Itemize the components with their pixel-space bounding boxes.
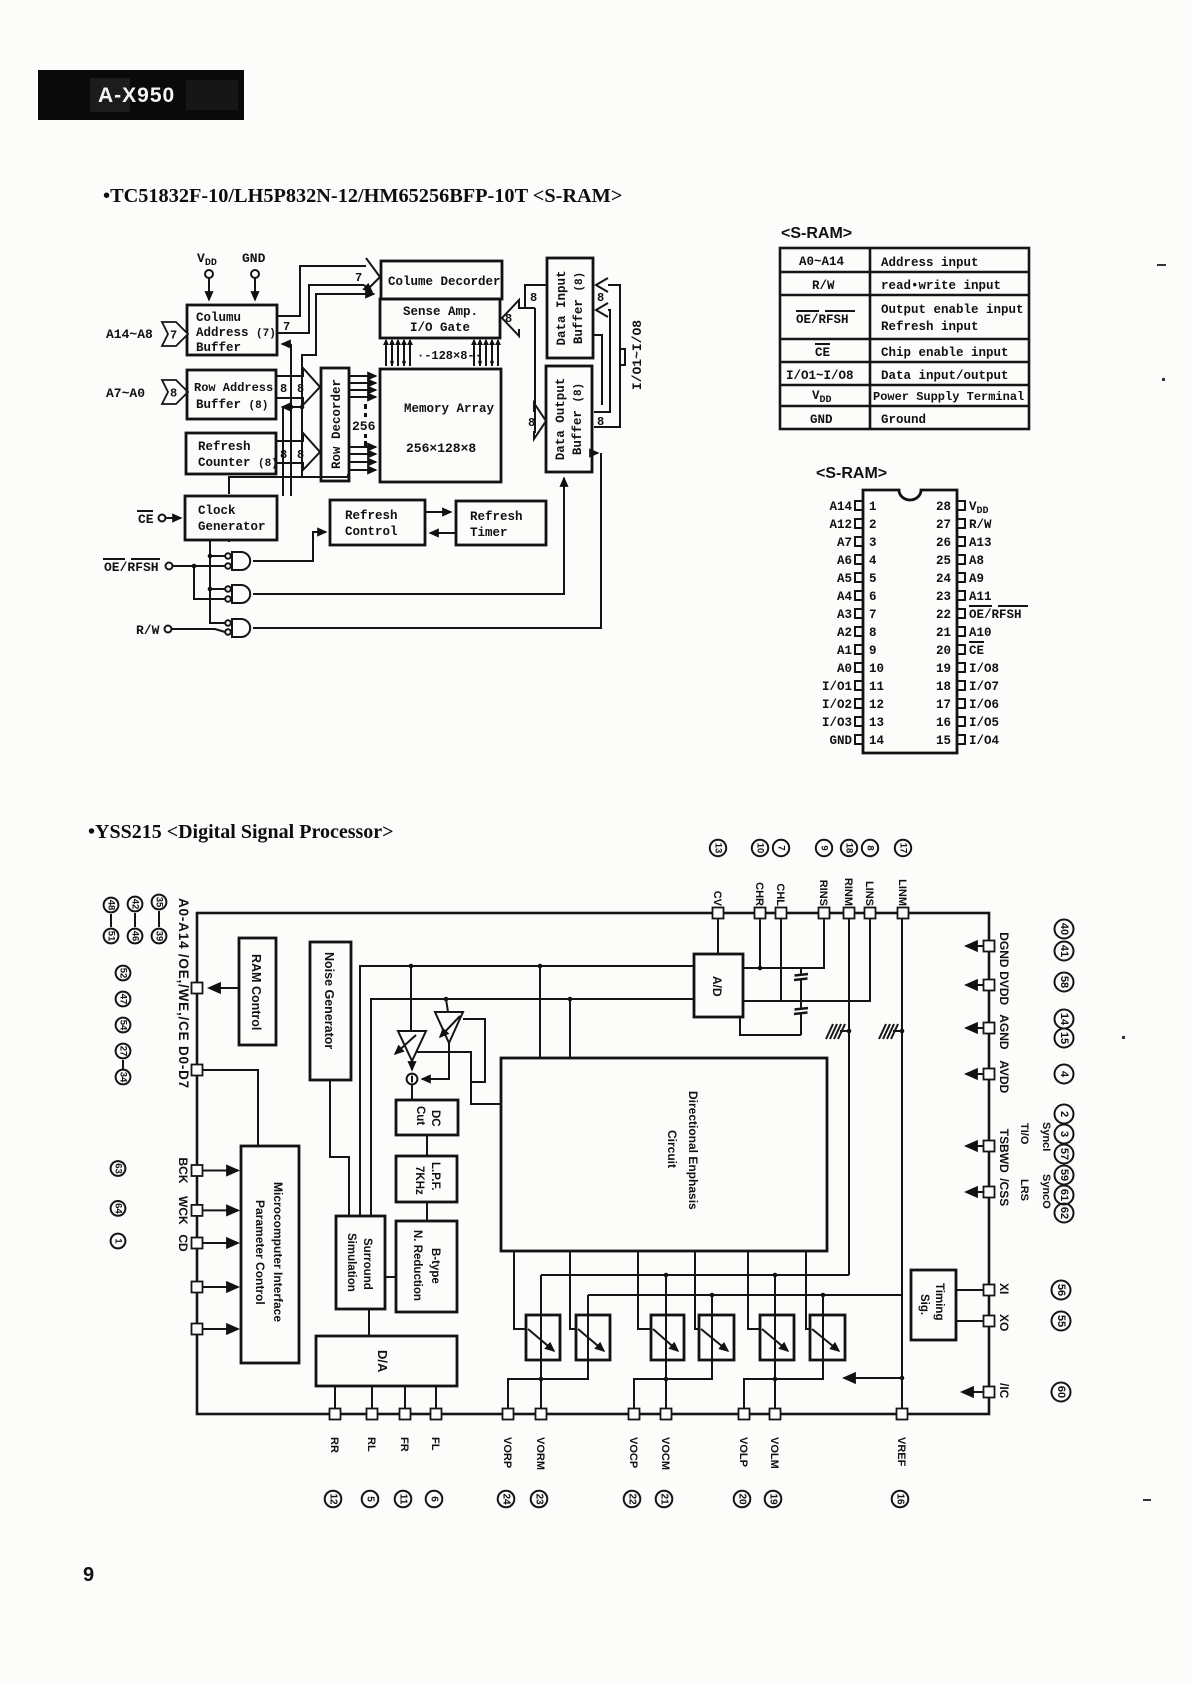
svg-text:8: 8 [297, 382, 304, 396]
svg-text:Simulation: Simulation [345, 1233, 357, 1292]
svg-text:A8: A8 [969, 554, 984, 568]
LINM line down to L bus and VREF [901, 918, 903, 1408]
svg-text:Refresh: Refresh [470, 510, 523, 524]
pin 23 A11 [936, 590, 992, 604]
svg-text:TI/O: TI/O [1018, 1123, 1030, 1145]
svg-text:<S-RAM>: <S-RAM> [816, 465, 887, 482]
wire gate3 to IO bus [253, 453, 601, 628]
pin /CSS [966, 1178, 1011, 1206]
svg-text:8: 8 [280, 448, 287, 462]
refresh counter [186, 433, 278, 474]
table row A0-A14 [799, 255, 979, 270]
wire A/D bottom loop to C2 [740, 1017, 801, 1035]
svg-text:15: 15 [1058, 1032, 1070, 1044]
pin OE WE CE square [192, 983, 203, 994]
pin 10 A0 [837, 662, 884, 676]
pin 2 A12 [829, 518, 876, 532]
svg-text:6: 6 [429, 1496, 440, 1502]
pin RINS [816, 840, 832, 919]
wire amp2 to summing node [422, 1043, 449, 1079]
svg-text:read•write input: read•write input [881, 279, 1001, 293]
svg-text:3: 3 [1058, 1131, 1070, 1137]
svg-text:SyncI: SyncI [1040, 1122, 1052, 1151]
DC cut block [396, 1100, 458, 1135]
VDD terminal [197, 251, 217, 300]
svg-text:Data Input: Data Input [555, 270, 569, 345]
svg-text:8: 8 [597, 291, 604, 305]
svg-text:CE: CE [969, 644, 984, 658]
analog ground 1 [826, 1024, 849, 1039]
svg-text:FR: FR [398, 1437, 410, 1452]
svg-text:1: 1 [869, 500, 877, 514]
pin VOCP [624, 1409, 641, 1508]
svg-text:46: 46 [130, 931, 141, 942]
svg-text:D/A: D/A [375, 1350, 390, 1373]
svg-text:7: 7 [776, 845, 787, 850]
table row R/W [812, 279, 1001, 293]
unlabeled control pins [192, 1282, 203, 1335]
svg-text:Chip enable input: Chip enable input [881, 346, 1009, 360]
pin 21 A10 [936, 626, 992, 640]
wire surround sim to D/A [368, 1309, 370, 1336]
svg-text:6: 6 [869, 590, 877, 604]
svg-text:L.P.F.: L.P.F. [429, 1162, 441, 1191]
capacitor C1 [794, 968, 808, 1001]
svg-text:Output enable input: Output enable input [881, 303, 1024, 317]
pin VOLP [734, 1409, 751, 1508]
stray scan marks right margin [1122, 264, 1166, 1501]
svg-text:16: 16 [895, 1493, 906, 1505]
svg-text:LRS: LRS [1018, 1179, 1030, 1201]
OE/RFSH input [103, 559, 225, 599]
table row IO1-IO8 [786, 369, 1009, 383]
wire control line to sense amp left [302, 294, 374, 477]
bus refresh counter to row decoder 8 8 [276, 433, 320, 470]
pin 16 I/O5 [936, 716, 999, 730]
svg-text:28: 28 [936, 500, 951, 514]
svg-text:4: 4 [1058, 1071, 1070, 1078]
pin WCK [111, 1196, 203, 1225]
pin 25 A8 [936, 554, 984, 568]
svg-text:Timing: Timing [933, 1283, 945, 1320]
volume attenuator 3 [651, 1315, 684, 1360]
svg-text:CE: CE [138, 512, 154, 527]
pin D0-D7 square [192, 1065, 203, 1076]
svg-text:8: 8 [280, 382, 287, 396]
pin CHL [773, 840, 789, 919]
svg-text:OE/RFSH: OE/RFSH [796, 313, 849, 327]
pin CV [710, 840, 726, 919]
svg-text:8: 8 [297, 448, 304, 462]
svg-text:20: 20 [737, 1493, 748, 1505]
svg-text:27: 27 [936, 518, 951, 532]
svg-text:AVDD: AVDD [997, 1060, 1011, 1093]
svg-text:9: 9 [819, 845, 830, 850]
svg-text:DVDD: DVDD [997, 971, 1011, 1005]
wire column buffer second line to decoder corner [277, 285, 372, 333]
svg-text:54: 54 [118, 1020, 129, 1031]
AND gate 3 [225, 619, 250, 637]
surround simulation block [336, 1216, 385, 1309]
pin 4 A6 [837, 554, 877, 568]
pin 26 A13 [936, 536, 992, 550]
pin 3 A7 [837, 536, 877, 550]
wire emphasis out to attenuator 1 [514, 1251, 527, 1329]
svg-text:9: 9 [83, 1564, 94, 1586]
pin 7 A3 [837, 608, 877, 622]
svg-text:39: 39 [154, 931, 165, 942]
svg-text:Row Address: Row Address [194, 381, 273, 395]
wire emphasis out to attenuator 4 [695, 1251, 700, 1329]
svg-text:VREF: VREF [895, 1437, 907, 1467]
clock generator [185, 496, 277, 540]
node 256 label with dotted line [352, 404, 376, 446]
pin CHR [752, 840, 768, 919]
wire sense amp right bus [502, 285, 547, 411]
svg-text:<S-RAM>: <S-RAM> [781, 225, 852, 242]
svg-text:48: 48 [106, 900, 117, 911]
svg-text:DGND: DGND [997, 932, 1011, 968]
svg-text:A7: A7 [837, 536, 852, 550]
summing node [407, 1061, 418, 1084]
svg-text:19: 19 [936, 662, 951, 676]
pin DGND [966, 932, 1011, 968]
svg-text:WCK: WCK [176, 1196, 190, 1225]
svg-text:I/O7: I/O7 [969, 680, 999, 694]
svg-text:62: 62 [1058, 1207, 1070, 1219]
pin 24 A9 [936, 572, 984, 586]
wire clock generator to gate inputs [208, 540, 225, 623]
svg-text:LINM: LINM [896, 879, 908, 906]
svg-text:I/O1~I/O8: I/O1~I/O8 [630, 320, 645, 390]
feedback wire to column address buffer [282, 344, 291, 496]
svg-text:LINS: LINS [863, 881, 875, 906]
svg-text:5: 5 [365, 1496, 376, 1502]
wire emphasis out to attenuator 3 [638, 1251, 652, 1329]
volume attenuator 1 [526, 1315, 560, 1360]
svg-text:BCK: BCK [176, 1158, 190, 1184]
data output buffer [546, 366, 592, 472]
svg-text:Buffer: Buffer [196, 341, 241, 355]
svg-text:64: 64 [113, 1203, 124, 1214]
svg-text:A6: A6 [837, 554, 852, 568]
arrows refresh control refresh timer [425, 512, 456, 533]
svg-text:26: 26 [936, 536, 951, 550]
svg-text:13: 13 [869, 716, 884, 730]
svg-text:A13: A13 [969, 536, 992, 550]
wire DC cut to LPF [426, 1135, 428, 1156]
directional emphasis circuit block [501, 1058, 827, 1251]
svg-text:Sense Amp.: Sense Amp. [403, 305, 478, 319]
volume attenuator 6 [810, 1315, 845, 1360]
svg-text:256: 256 [352, 419, 376, 434]
column address buffer [187, 305, 277, 355]
pin VORM [531, 1409, 548, 1508]
IO bus inner wire 2 [593, 335, 602, 405]
svg-text:Memory Array: Memory Array [404, 402, 495, 416]
data input buffer [547, 258, 593, 358]
svg-text:23: 23 [936, 590, 951, 604]
L channel bus to attenuators [588, 1294, 902, 1296]
wire A/D right to RINS with CHR tap [743, 918, 824, 968]
svg-text:GND: GND [829, 734, 852, 748]
input A14~A8 [106, 322, 188, 346]
svg-text:RINM: RINM [842, 878, 854, 906]
pin 6 A4 [837, 590, 877, 604]
svg-text:Sig.: Sig. [918, 1294, 930, 1315]
svg-text:Clock: Clock [198, 504, 236, 518]
svg-text:·-128×8-·: ·-128×8-· [417, 349, 482, 363]
variable amp 1 [395, 966, 426, 1061]
svg-text:Power Supply Terminal: Power Supply Terminal [873, 390, 1024, 404]
B-type N.Reduction block [396, 1221, 457, 1312]
svg-text:XI: XI [997, 1283, 1011, 1294]
svg-text:63: 63 [113, 1163, 124, 1174]
bus row address buffer to row decoder 8 8 [277, 368, 320, 405]
capacitor C2 [794, 1001, 808, 1035]
sense amp I/O gate [380, 299, 500, 338]
wire emphasis out to attenuator 6 [806, 1251, 811, 1329]
pin 14 GND [829, 734, 884, 748]
svg-text:VOCP: VOCP [627, 1437, 639, 1468]
wire CV to A/D [717, 918, 719, 954]
svg-text:A14: A14 [829, 500, 852, 514]
attenuator 4 output to VOCP node [634, 1295, 712, 1408]
svg-text:Buffer (8): Buffer (8) [571, 383, 585, 455]
pin VOLM [765, 1409, 782, 1508]
svg-text:11: 11 [398, 1494, 409, 1505]
svg-text:A3: A3 [837, 608, 852, 622]
svg-text:VOLP: VOLP [737, 1437, 749, 1467]
analog ground 2 [879, 1024, 902, 1039]
clock bundle vertical wires [228, 540, 230, 542]
svg-text:52: 52 [118, 968, 129, 979]
svg-text:I/O6: I/O6 [969, 698, 999, 712]
svg-text:18: 18 [936, 680, 951, 694]
pin VREF [892, 1409, 909, 1508]
svg-text:CHR: CHR [753, 882, 765, 906]
svg-text:A/D: A/D [710, 976, 724, 997]
wire emphasis out to attenuator 5 [748, 1251, 761, 1329]
volume attenuator 5 [760, 1315, 794, 1360]
svg-text:8: 8 [597, 415, 604, 429]
svg-text:4: 4 [869, 554, 877, 568]
pin RINM [841, 840, 857, 919]
pin /IC [962, 1383, 1071, 1402]
svg-text:8: 8 [865, 845, 876, 850]
svg-text:CD: CD [176, 1234, 190, 1252]
bus line 2 to A/D [371, 999, 694, 1216]
svg-text:13: 13 [713, 843, 724, 854]
svg-text:56: 56 [1055, 1284, 1067, 1296]
pin AVDD [966, 1060, 1011, 1093]
bus into data output buffer 8 [528, 403, 546, 439]
wire D0-D7 to microcomputer [203, 1070, 258, 1146]
pin 27 R/W [936, 518, 992, 532]
pin 11 I/O1 [822, 680, 884, 694]
svg-text:FL: FL [429, 1437, 441, 1451]
D/A output wires [335, 1386, 436, 1408]
svg-text:Buffer (8): Buffer (8) [196, 398, 268, 412]
AND gate 2 [225, 585, 250, 603]
wire noise generator to surround sim [330, 1080, 349, 1216]
svg-text:A14~A8: A14~A8 [106, 327, 153, 342]
svg-text:12: 12 [869, 698, 884, 712]
svg-text:I/O2: I/O2 [822, 698, 852, 712]
row decoder to memory array arrows top [349, 376, 376, 397]
wire gate1 to refresh control [253, 532, 326, 561]
svg-text:A7~A0: A7~A0 [106, 386, 145, 401]
svg-text:2: 2 [1058, 1111, 1070, 1117]
svg-text:AGND: AGND [997, 1014, 1011, 1050]
svg-text:7KHz: 7KHz [413, 1166, 425, 1195]
pin TSBWD [966, 1129, 1011, 1173]
A/D converter block [694, 954, 743, 1017]
pin function table [780, 248, 1029, 429]
attenuator 1 output to VORM [540, 1275, 542, 1408]
pin VORP [498, 1409, 515, 1508]
svg-text:OE/RFSH: OE/RFSH [104, 560, 159, 575]
VREF feedback arrow [844, 1377, 902, 1379]
svg-text:3: 3 [869, 536, 877, 550]
wire RAM control to OE pin [209, 987, 239, 989]
svg-text:Generator: Generator [198, 520, 266, 534]
svg-text:/CSS: /CSS [997, 1178, 1011, 1206]
pin 1 A14 [829, 500, 876, 514]
RAM control block [239, 938, 276, 1045]
svg-text:R/W: R/W [136, 623, 160, 638]
pin AGND [966, 1014, 1011, 1050]
svg-text:TSBWD: TSBWD [997, 1129, 1011, 1173]
wire surround sim to N.Reduction [385, 1276, 396, 1278]
svg-text:CHL: CHL [774, 883, 786, 906]
table row VDD [812, 389, 1024, 406]
svg-text:Refresh: Refresh [198, 440, 251, 454]
svg-text:47: 47 [118, 994, 129, 1005]
table row OE/RFSH [796, 303, 1024, 334]
bus line 1 to A/D [360, 966, 694, 1216]
pin 8 A2 [837, 626, 877, 640]
svg-text:A10: A10 [969, 626, 992, 640]
svg-text:27: 27 [118, 1046, 129, 1057]
right pin circles [1055, 920, 1074, 1223]
svg-text:A-X950: A-X950 [98, 84, 175, 107]
svg-text:22: 22 [627, 1493, 638, 1505]
IO bus outer wire [594, 278, 625, 429]
svg-text:Circuit: Circuit [665, 1130, 679, 1168]
pin LINS [862, 840, 878, 919]
input A7~A0 [106, 380, 188, 404]
pin RL [362, 1409, 379, 1508]
svg-text:A11: A11 [969, 590, 992, 604]
noise generator block [310, 942, 351, 1080]
wire LPF to N.Reduction [426, 1202, 428, 1221]
pin group A0-A14 circles 35-51 [104, 895, 167, 944]
svg-text:8: 8 [530, 291, 537, 305]
pin 5 A5 [837, 572, 877, 586]
row decoder to memory array arrows bottom [349, 447, 376, 470]
svg-text:Noise Generator: Noise Generator [322, 952, 336, 1049]
svg-text:21: 21 [936, 626, 951, 640]
pin VOCM [656, 1409, 673, 1508]
svg-text:VOCM: VOCM [659, 1437, 671, 1470]
svg-text:7: 7 [869, 608, 877, 622]
svg-text:VORM: VORM [534, 1437, 546, 1470]
svg-text:17: 17 [898, 843, 909, 854]
svg-text:SyncO: SyncO [1040, 1174, 1052, 1209]
wire column buffer to column decoder bus 7 [277, 258, 380, 334]
svg-text:42: 42 [130, 899, 141, 910]
svg-text:18: 18 [844, 843, 855, 854]
svg-text:A0-A14 /OE,/WE,/CE D0-D7: A0-A14 /OE,/WE,/CE D0-D7 [176, 898, 191, 1089]
R channel bus to attenuators [541, 1274, 849, 1276]
svg-text:Parameter Control: Parameter Control [253, 1200, 267, 1305]
svg-text:Refresh input: Refresh input [881, 320, 979, 334]
timing signal block [911, 1270, 956, 1340]
svg-text:16: 16 [936, 716, 951, 730]
variable amp 2 [435, 999, 463, 1043]
CE input [137, 511, 181, 527]
svg-text:19: 19 [768, 1493, 779, 1505]
attenuator 2 output to VORP node [508, 1295, 588, 1408]
memory array [380, 369, 501, 482]
attenuator 3 output to VOCM [665, 1275, 667, 1408]
svg-text:Row Decorder: Row Decorder [330, 379, 344, 469]
svg-text:A0~A14: A0~A14 [799, 255, 845, 269]
svg-text:59: 59 [1058, 1169, 1070, 1181]
GND terminal [242, 251, 266, 300]
pin XI [956, 1281, 1071, 1300]
svg-text:B-type: B-type [429, 1248, 441, 1284]
svg-text:22: 22 [936, 608, 951, 622]
svg-text:VOLM: VOLM [768, 1437, 780, 1469]
attenuator 6 output to VOLP node [744, 1295, 823, 1408]
svg-text:55: 55 [1055, 1315, 1067, 1327]
svg-text:10: 10 [755, 843, 766, 854]
svg-text:7: 7 [355, 271, 362, 285]
wires buses into emphasis circuit [539, 966, 541, 1058]
svg-text:9: 9 [869, 644, 877, 658]
svg-text:8: 8 [528, 416, 535, 430]
wire gate2 to data output buffer [253, 478, 564, 594]
svg-text:Data Output: Data Output [554, 378, 568, 461]
svg-text:Counter (8): Counter (8) [198, 456, 278, 470]
svg-text:Address input: Address input [881, 256, 979, 270]
svg-text:7: 7 [283, 320, 290, 334]
svg-text:Surround: Surround [361, 1238, 373, 1290]
pin 12 I/O2 [822, 698, 884, 712]
svg-text:8: 8 [505, 312, 512, 326]
svg-text:15: 15 [936, 734, 951, 748]
svg-text:Refresh: Refresh [345, 509, 398, 523]
YSS215 chip boundary [197, 913, 989, 1414]
pin 28 VDD [936, 500, 989, 517]
pin BCK [111, 1158, 203, 1184]
svg-text:RL: RL [365, 1437, 377, 1452]
table row GND [810, 413, 926, 427]
wire refresh counter bottom to clock generator [229, 474, 348, 494]
svg-text:CV: CV [711, 891, 723, 907]
svg-text:A4: A4 [837, 590, 853, 604]
svg-text:51: 51 [106, 931, 117, 942]
svg-text:Control: Control [345, 525, 398, 539]
svg-text:Columu: Columu [196, 311, 241, 325]
svg-text:17: 17 [936, 698, 951, 712]
feedback wire to row address buffer [282, 405, 304, 496]
net labels TI/O LRS SyncI SyncO [1018, 1122, 1052, 1209]
pin RR [325, 1409, 342, 1508]
microcomputer interface parameter control block [241, 1146, 299, 1363]
